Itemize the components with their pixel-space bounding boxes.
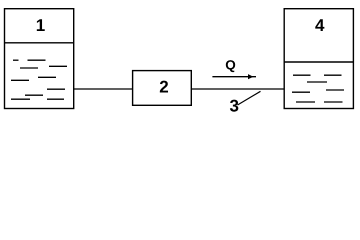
tank 1 liquid dashes row 6	[47, 88, 65, 90]
flow arrow head	[248, 74, 253, 79]
label 3 leader line	[238, 91, 261, 105]
pipe wire pump to tank 4	[191, 88, 284, 90]
tank 4 liquid dashes row 3	[326, 89, 344, 91]
tank 4 liquid dashes row 4	[292, 91, 310, 93]
tank 1 liquid dashes row 5	[11, 79, 29, 81]
tank 4 liquid surface divider	[284, 61, 355, 63]
pump box 2 outline	[133, 71, 192, 106]
svg-text:4: 4	[315, 16, 325, 35]
svg-text:3: 3	[229, 97, 238, 116]
tank 1 liquid dashes row 2	[49, 65, 67, 67]
svg-text:2: 2	[159, 78, 168, 97]
tank 1 liquid dashes row 7	[25, 94, 43, 96]
tank 4 liquid dashes row 1	[293, 74, 342, 76]
svg-text:Q: Q	[225, 57, 236, 72]
tank 1 liquid dashes row 1	[13, 59, 46, 61]
flow arrow shaft	[212, 76, 256, 78]
tank 4 liquid dashes row 2	[307, 81, 327, 83]
pipe wire tank1 to pump	[74, 88, 133, 90]
tank 4 liquid dashes row 5	[296, 101, 343, 103]
tank 1 liquid surface divider	[4, 42, 74, 44]
svg-text:1: 1	[36, 16, 45, 35]
tank 1 liquid dashes row 8	[11, 98, 64, 100]
tank 1 outline	[5, 9, 74, 109]
tank 1 liquid dashes row 4	[38, 76, 56, 78]
tank 4 outline	[284, 9, 353, 109]
tank 1 liquid dashes row 3	[20, 67, 38, 69]
